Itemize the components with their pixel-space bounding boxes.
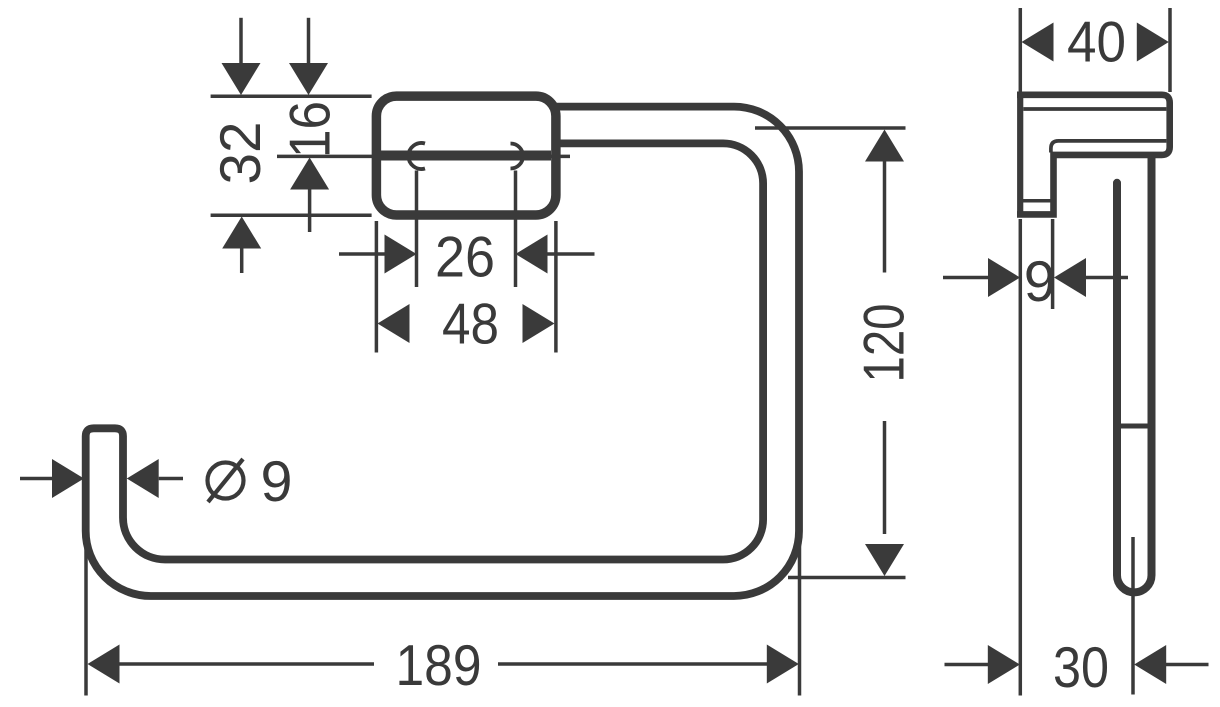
dim 26 right arrowhead	[516, 235, 548, 274]
bar through block	[381, 151, 552, 161]
dim 189 left extension line	[84, 505, 88, 696]
dim diam9 right line	[159, 477, 183, 481]
dim 32 bottom arrowhead	[222, 217, 261, 249]
svg-text:48: 48	[442, 292, 499, 356]
diameter symbol slash	[208, 459, 243, 502]
side view holder outline	[1017, 95, 1170, 215]
dim 32 top arrowhead	[222, 63, 261, 95]
dim 120 top arrowhead	[865, 130, 904, 162]
side view plate bottom inner line	[1023, 199, 1052, 203]
dim 16 top arrowhead	[289, 63, 328, 95]
dim 120 bottom extension line	[788, 576, 906, 580]
side view holder top inner line	[1023, 107, 1166, 111]
svg-text:26: 26	[435, 226, 495, 290]
svg-text:9: 9	[261, 450, 293, 514]
extension line y156 through block	[277, 155, 570, 159]
ring tube outline (front view)	[86, 107, 799, 596]
dim 30 left line	[945, 663, 989, 667]
dim 16 bottom arrowhead	[290, 158, 329, 190]
side view hanging tube	[1117, 157, 1152, 592]
dim 9 side right arrowhead	[1054, 258, 1086, 297]
diameter symbol circle	[208, 463, 244, 499]
dim 9 side right line	[1086, 276, 1128, 280]
dim 26 left extension line	[415, 171, 419, 288]
mounting block (front view)	[376, 96, 556, 215]
dim 26 left line	[339, 252, 386, 256]
dim 189 right line	[498, 662, 767, 666]
dim 9 side: right extension line	[1051, 219, 1055, 309]
dim 120 bottom arrowhead	[865, 544, 904, 576]
svg-text:120: 120	[852, 304, 916, 383]
dim diam9 right arrowhead	[127, 459, 159, 498]
svg-text:9: 9	[1024, 250, 1056, 314]
dim 26 left arrowhead	[385, 235, 417, 274]
dim 16 top arrow tail	[307, 18, 311, 64]
dim 30 right line	[1166, 663, 1209, 667]
dim 30 left arrowhead	[988, 645, 1020, 684]
dim 26 right line	[546, 252, 595, 256]
extension line y215 (block bottom)	[211, 214, 372, 218]
dim 189 right arrowhead	[767, 645, 799, 684]
dim 40 left arrowhead	[1022, 23, 1054, 62]
dim diam9 left arrowhead	[52, 459, 84, 498]
dim 48 right extension line	[554, 221, 558, 353]
side view arm top line with bend	[1051, 141, 1167, 153]
dim diam9 left line	[20, 477, 53, 481]
side view: 40 right extension line	[1168, 8, 1172, 92]
svg-text:16: 16	[278, 101, 342, 158]
dim 189 left line	[119, 662, 374, 666]
break mark right	[511, 144, 524, 169]
dim 30 right arrowhead	[1134, 645, 1166, 684]
dim 16 bottom arrow tail	[308, 189, 312, 232]
extension line y96 (block top)	[211, 94, 372, 98]
dim 9 side left arrowhead	[988, 258, 1020, 297]
svg-text:32: 32	[209, 122, 273, 185]
dim 189 left arrowhead	[88, 645, 120, 684]
svg-text:30: 30	[1053, 636, 1109, 700]
dim 120 lower line	[883, 421, 887, 534]
side view tube joint line	[1114, 424, 1156, 429]
dim 32 bottom arrow tail	[240, 248, 244, 273]
svg-text:189: 189	[396, 634, 482, 698]
dim 9 side: left extension line (long, shared with dim 30)	[1019, 219, 1023, 696]
dim 48 left extension line	[375, 221, 379, 353]
dim 32 top arrow tail	[239, 18, 243, 64]
svg-text:40: 40	[1067, 10, 1126, 74]
dim 189 right extension line	[798, 537, 802, 696]
side view holder left edge	[1017, 92, 1023, 218]
dim 40 right arrowhead	[1137, 23, 1169, 62]
dim 120 upper line	[883, 161, 887, 273]
dim 26 right extension line	[514, 171, 518, 288]
side view: 40 left extension line	[1019, 8, 1023, 92]
dim 9 side left line	[943, 276, 989, 280]
dim 48 right arrowhead	[523, 304, 555, 343]
dim 120 top extension line	[755, 126, 906, 130]
dim 48 left arrowhead	[378, 304, 410, 343]
side view tube center extension line	[1131, 537, 1135, 695]
break mark left	[408, 143, 425, 169]
